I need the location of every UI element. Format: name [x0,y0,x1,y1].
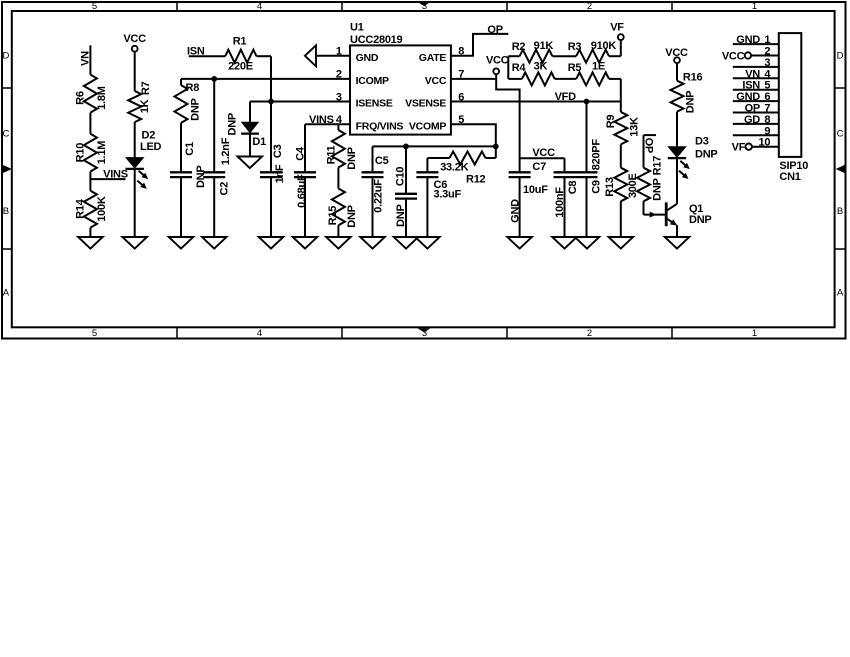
svg-text:Q1: Q1 [689,203,703,215]
svg-text:3: 3 [764,57,770,69]
svg-text:10: 10 [759,137,771,149]
svg-text:R4: R4 [512,62,527,74]
svg-text:2: 2 [764,46,770,58]
svg-text:3: 3 [336,91,342,103]
svg-text:R16: R16 [683,71,703,83]
svg-text:A: A [3,288,10,299]
svg-text:GND: GND [736,91,760,103]
svg-text:VCC: VCC [486,54,509,66]
svg-text:R3: R3 [568,41,582,53]
svg-text:D1: D1 [252,136,266,148]
svg-text:1.1M: 1.1M [96,141,108,165]
svg-text:GATE: GATE [419,52,447,64]
svg-text:R10: R10 [75,143,87,163]
svg-text:DNP: DNP [689,214,711,226]
svg-text:VCC: VCC [532,147,555,159]
svg-text:5: 5 [92,1,97,12]
svg-text:D2: D2 [142,130,156,142]
svg-text:R7: R7 [140,81,152,95]
svg-text:C1: C1 [184,142,196,156]
svg-text:2: 2 [587,328,592,339]
svg-text:8: 8 [764,114,770,126]
svg-text:VCC: VCC [425,75,447,87]
svg-text:0.68uF: 0.68uF [296,174,308,208]
svg-text:GND: GND [356,52,379,64]
svg-text:CN1: CN1 [779,171,800,183]
svg-text:R9: R9 [605,115,617,129]
svg-text:C4: C4 [295,146,307,161]
svg-text:DNP: DNP [695,148,717,160]
svg-text:1: 1 [752,328,757,339]
svg-text:VCC: VCC [123,33,146,45]
svg-text:VINS: VINS [309,114,334,126]
svg-text:13K: 13K [628,117,640,137]
svg-text:GND: GND [736,34,760,46]
svg-text:UCC28019: UCC28019 [350,34,403,46]
svg-text:D: D [837,51,844,62]
svg-text:VSENSE: VSENSE [405,98,446,110]
svg-text:820PF: 820PF [591,139,603,171]
svg-text:3.3uF: 3.3uF [434,189,462,201]
svg-text:VF: VF [732,142,746,154]
svg-text:7: 7 [764,103,770,115]
svg-text:R2: R2 [512,41,526,53]
svg-text:1E: 1E [592,61,605,73]
svg-text:VFD: VFD [555,91,577,103]
svg-text:FRQ/VINS: FRQ/VINS [356,120,404,132]
svg-text:VN: VN [745,68,760,80]
svg-text:C9: C9 [590,180,602,194]
svg-text:LED: LED [140,141,162,153]
svg-text:A: A [837,288,844,299]
svg-text:R12: R12 [466,174,486,186]
svg-text:100K: 100K [96,196,108,222]
svg-text:DNP: DNP [346,147,358,169]
svg-text:2: 2 [336,69,342,81]
svg-text:4: 4 [257,328,262,339]
svg-text:U1: U1 [350,22,364,34]
svg-text:VN: VN [80,51,92,66]
svg-text:C3: C3 [272,144,284,158]
svg-text:R15: R15 [327,206,339,226]
svg-text:DNP: DNP [685,91,697,113]
svg-text:6: 6 [764,91,770,103]
svg-text:C2: C2 [219,182,231,196]
svg-text:3K: 3K [534,61,548,73]
svg-text:91K: 91K [534,40,554,52]
svg-text:VCOMP: VCOMP [409,120,447,132]
svg-text:DNP: DNP [395,204,407,226]
svg-text:ISN: ISN [742,80,760,92]
svg-text:DNP: DNP [190,98,202,120]
svg-text:C: C [837,129,844,140]
svg-text:VCC: VCC [722,50,745,62]
svg-text:C5: C5 [375,155,389,167]
svg-text:R14: R14 [75,198,87,219]
svg-text:R6: R6 [75,91,87,105]
svg-text:DNP: DNP [346,205,358,227]
svg-text:DNP: DNP [651,178,663,200]
svg-text:B: B [837,206,843,217]
svg-text:9: 9 [764,125,770,137]
svg-text:R1: R1 [233,35,247,47]
svg-text:R5: R5 [568,62,582,74]
svg-text:10uF: 10uF [523,184,548,196]
svg-text:33.2K: 33.2K [440,162,468,174]
svg-text:VINS: VINS [103,168,128,180]
svg-text:ICOMP: ICOMP [356,75,389,87]
svg-text:C8: C8 [567,181,579,195]
svg-text:OP: OP [487,24,502,36]
svg-text:GD: GD [744,114,760,126]
svg-text:R8: R8 [186,82,200,94]
svg-text:3: 3 [422,328,427,339]
svg-text:VF: VF [610,22,624,34]
svg-text:D3: D3 [695,136,709,148]
svg-text:220E: 220E [228,61,253,73]
svg-text:GND: GND [509,199,521,223]
svg-text:DNP: DNP [226,113,238,135]
svg-text:1.8M: 1.8M [96,86,108,110]
svg-text:1: 1 [764,34,770,46]
svg-text:C10: C10 [395,167,407,187]
svg-text:2: 2 [587,1,592,12]
svg-text:1nF: 1nF [274,164,286,183]
svg-text:1: 1 [336,46,342,58]
svg-text:0.22uF: 0.22uF [373,179,385,213]
svg-text:DNP: DNP [195,166,207,188]
svg-text:R13: R13 [604,177,616,197]
svg-text:ISENSE: ISENSE [356,98,393,110]
svg-text:100nF: 100nF [554,187,566,218]
svg-text:C7: C7 [532,161,546,173]
svg-text:1K: 1K [139,99,151,113]
svg-text:OP: OP [745,103,760,115]
svg-text:B: B [3,206,9,217]
svg-text:R17: R17 [651,156,663,176]
svg-text:R11: R11 [326,145,338,164]
svg-text:C: C [2,129,9,140]
svg-text:910K: 910K [591,40,617,52]
svg-text:OP: OP [643,138,655,153]
svg-text:5: 5 [764,80,770,92]
svg-text:4: 4 [257,1,262,12]
svg-text:5: 5 [92,328,97,339]
svg-text:3: 3 [422,1,427,12]
svg-text:D: D [2,51,9,62]
svg-text:1.2nF: 1.2nF [220,137,232,165]
svg-text:1: 1 [752,1,757,12]
